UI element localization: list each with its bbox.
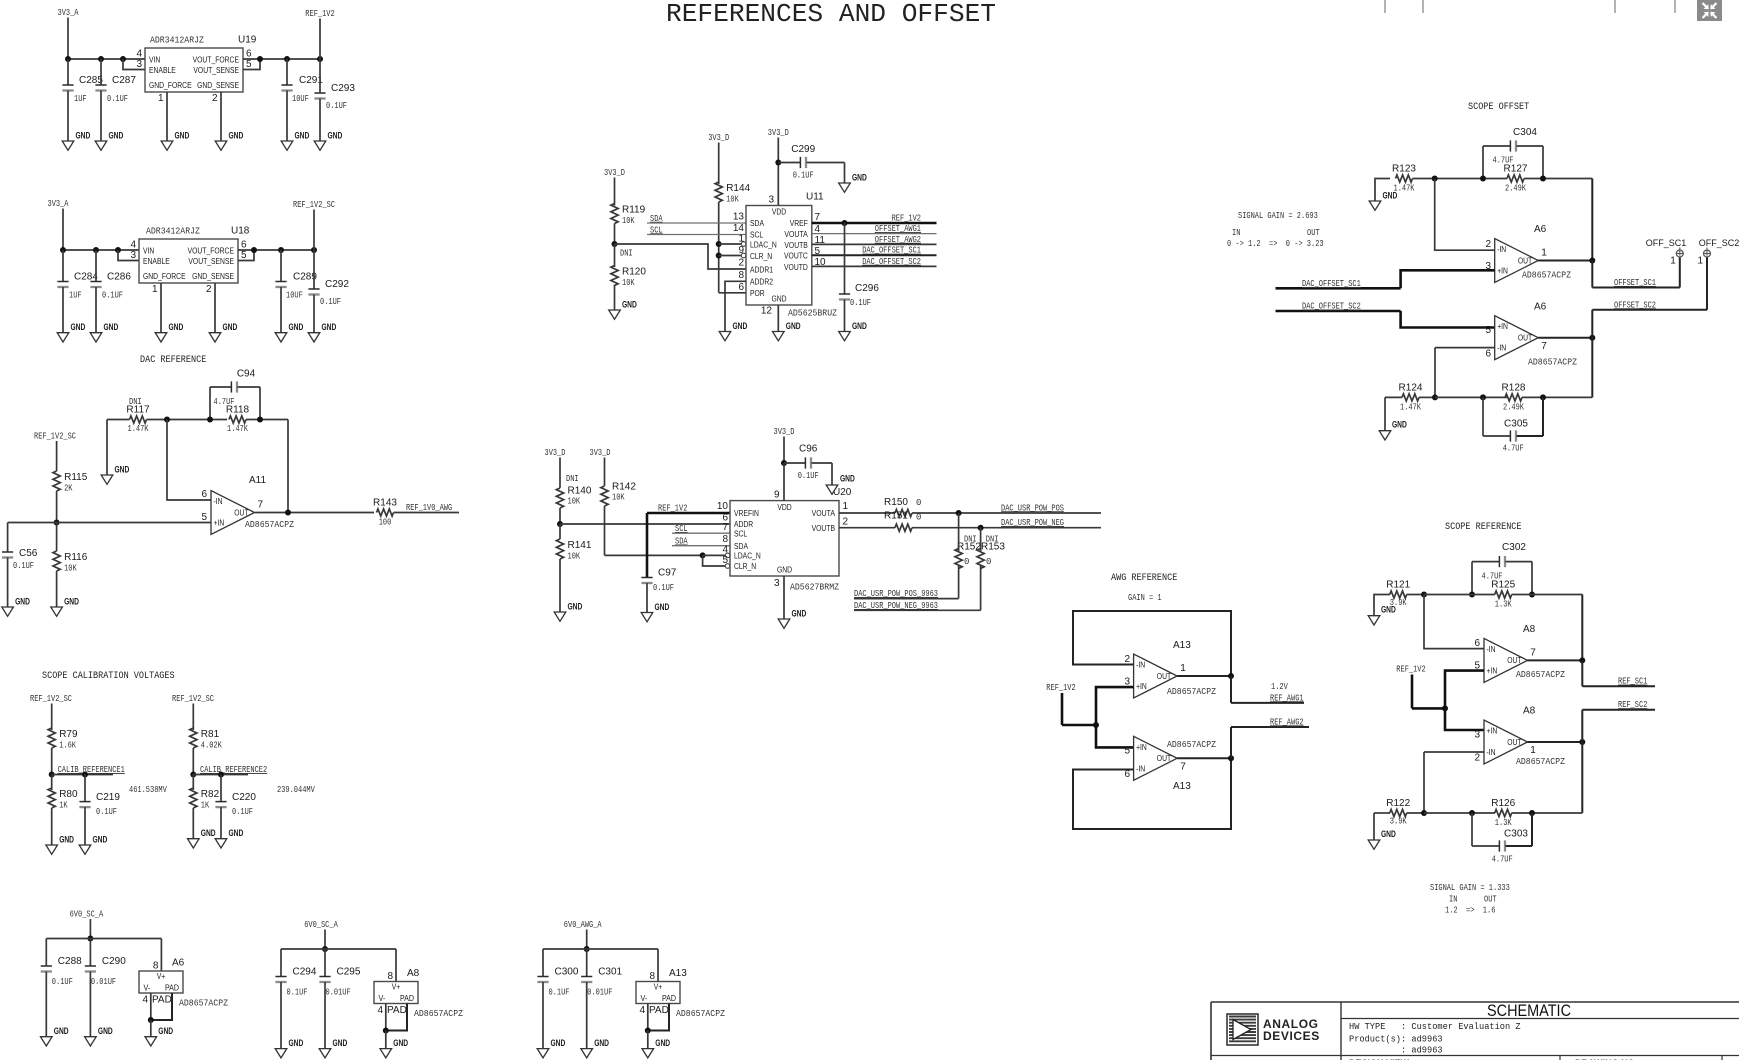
net REF_1V2 output — [812, 222, 937, 225]
svg-text:OFF_SC1: OFF_SC1 — [1646, 238, 1687, 248]
svg-text:AD8657ACPZ: AD8657ACPZ — [1516, 756, 1565, 767]
svg-text:7: 7 — [1180, 762, 1186, 773]
svg-text:3V3_D: 3V3_D — [708, 133, 729, 143]
svg-text:VDD: VDD — [772, 207, 786, 217]
net DAC_OFFSET_SC1 — [812, 254, 937, 256]
wire gnd_force pin1 — [160, 283, 162, 333]
capacitor C289 — [280, 250, 282, 282]
svg-text:VIN: VIN — [143, 245, 154, 255]
resistor R141 — [559, 524, 561, 539]
svg-text:R81: R81 — [201, 729, 220, 740]
svg-text:R144: R144 — [726, 183, 750, 194]
svg-text:OFFSET_AWG2: OFFSET_AWG2 — [875, 235, 921, 245]
svg-text:VOUTA: VOUTA — [784, 229, 808, 239]
capacitor C299 — [778, 162, 800, 164]
svg-text:C220: C220 — [232, 792, 256, 803]
net REF_AWG1 — [1230, 676, 1232, 703]
svg-text:ADR3412ARJZ: ADR3412ARJZ — [150, 35, 204, 46]
svg-text:GND: GND — [655, 602, 670, 612]
svg-text:1: 1 — [1670, 256, 1676, 267]
capacitor C293 — [319, 59, 321, 93]
capacitor C295 — [324, 949, 326, 977]
svg-text:GND: GND — [328, 131, 343, 141]
svg-text:DAC_USR_POW_NEG_9963: DAC_USR_POW_NEG_9963 — [854, 601, 938, 611]
svg-text:R127: R127 — [1504, 164, 1528, 175]
svg-text:DAC REFERENCE: DAC REFERENCE — [140, 354, 206, 366]
svg-text:-IN: -IN — [1136, 660, 1145, 670]
page top border ticks — [1384, 0, 1386, 13]
svg-text:REF_1V2_SC: REF_1V2_SC — [293, 200, 335, 210]
svg-text:AD8657ACPZ: AD8657ACPZ — [245, 519, 294, 530]
wire +IN — [8, 522, 211, 524]
ground — [95, 141, 107, 150]
svg-text:7: 7 — [1530, 647, 1536, 658]
svg-text:R141: R141 — [568, 540, 592, 551]
svg-text:1.47K: 1.47K — [128, 424, 149, 434]
svg-text:C292: C292 — [325, 279, 349, 290]
net OFFSET_SC2 — [1592, 309, 1707, 311]
svg-text:9: 9 — [774, 490, 780, 501]
svg-text:GND: GND — [158, 1026, 173, 1036]
node junction — [49, 772, 55, 778]
svg-text:VOUTA: VOUTA — [812, 508, 836, 518]
svg-text:6V0_SC_A: 6V0_SC_A — [304, 920, 338, 930]
svg-text:DAC_USR_POW_POS_9963: DAC_USR_POW_POS_9963 — [854, 589, 938, 599]
svg-text:GND: GND — [786, 321, 801, 331]
net CALIB_REFERENCE2 — [193, 774, 248, 776]
svg-text:3: 3 — [1474, 730, 1480, 741]
capacitor C94 — [230, 381, 232, 392]
svg-text:6V0_AWG_A: 6V0_AWG_A — [564, 920, 602, 930]
voltage reference U18 ADR3412ARJZ — [139, 239, 238, 283]
svg-text:PAD: PAD — [400, 993, 414, 1003]
capacitor C220 — [220, 775, 222, 802]
svg-text:SCHEMATIC: SCHEMATIC — [1487, 1001, 1571, 1020]
capacitor C287 — [100, 59, 102, 85]
svg-text:REF_1V2_SC: REF_1V2_SC — [172, 694, 214, 704]
capacitor C292 — [313, 250, 315, 289]
wire voutb — [839, 527, 895, 529]
wire feedback right — [287, 420, 289, 513]
net DAC_OFFSET_SC2 — [1276, 310, 1401, 313]
svg-text:1: 1 — [1541, 248, 1547, 259]
svg-text:5: 5 — [1485, 325, 1491, 336]
svg-text:SDA: SDA — [734, 541, 748, 551]
svg-text:VOUT_SENSE: VOUT_SENSE — [188, 256, 234, 266]
wire output lower — [1177, 757, 1231, 759]
svg-text:1.3K: 1.3K — [1495, 818, 1512, 828]
resistor R127 — [1507, 175, 1524, 182]
svg-text:REFERENCES AND OFFSET: REFERENCES AND OFFSET — [666, 0, 996, 29]
wire c94 right — [259, 387, 261, 420]
resistor R126 — [1495, 809, 1512, 816]
svg-text:VOUT_FORCE: VOUT_FORCE — [188, 245, 235, 255]
svg-text:+IN: +IN — [1487, 665, 1498, 675]
resistor R119 — [611, 204, 618, 224]
svg-text:0.1UF: 0.1UF — [96, 807, 117, 817]
svg-text:C94: C94 — [237, 369, 256, 380]
svg-text:A13: A13 — [1173, 781, 1191, 792]
ground — [839, 183, 851, 192]
svg-text:GND: GND — [1381, 829, 1396, 839]
svg-text:4: 4 — [377, 1005, 383, 1016]
node junction — [775, 160, 781, 166]
ground — [319, 1049, 331, 1058]
svg-text:PAD: PAD — [662, 993, 676, 1003]
capacitor C300 — [542, 949, 544, 977]
svg-text:C302: C302 — [1502, 542, 1526, 553]
svg-text:1: 1 — [158, 93, 164, 104]
svg-text:5: 5 — [201, 512, 207, 523]
svg-text:C300: C300 — [555, 967, 579, 978]
svg-text:0: 0 — [986, 557, 991, 567]
svg-text:PAD: PAD — [649, 1005, 669, 1016]
svg-text:+IN: +IN — [1136, 681, 1147, 691]
svg-text:6: 6 — [1485, 349, 1491, 360]
svg-text:SCL: SCL — [650, 225, 663, 235]
svg-text:DAC_OFFSET_SC2: DAC_OFFSET_SC2 — [862, 257, 921, 267]
svg-text:REF_1V0_AWG: REF_1V0_AWG — [406, 503, 452, 513]
svg-text:SCL: SCL — [750, 230, 763, 240]
svg-text:REF_1V2: REF_1V2 — [892, 213, 921, 223]
node junction — [87, 936, 93, 942]
svg-text:VOUTB: VOUTB — [784, 240, 808, 250]
svg-text:A11: A11 — [249, 475, 266, 486]
svg-text:0 -> 1.2 => 0 -> 3.23: 0 -> 1.2 => 0 -> 3.23 — [1227, 239, 1324, 249]
ground — [2, 607, 14, 616]
svg-text:LDAC_N: LDAC_N — [734, 551, 761, 561]
svg-text:OUT: OUT — [1518, 255, 1533, 265]
resistor R79 — [48, 728, 55, 748]
svg-text:7: 7 — [722, 522, 728, 533]
svg-text:GND: GND — [169, 322, 184, 332]
svg-text:V+: V+ — [392, 982, 401, 992]
ground — [90, 333, 102, 342]
svg-text:OFFSET_SC2: OFFSET_SC2 — [1614, 300, 1656, 310]
ground — [145, 1037, 157, 1046]
wire to +IN upper — [1445, 671, 1484, 709]
op-amp power pins A13 AD8657ACPZ — [657, 949, 659, 982]
svg-text:OFFSET_SC1: OFFSET_SC1 — [1614, 278, 1656, 288]
resistor R150 — [895, 509, 912, 516]
ground — [62, 141, 74, 150]
svg-text:R79: R79 — [59, 729, 78, 740]
wire feedback right — [1581, 595, 1583, 661]
svg-text:3V3_D: 3V3_D — [774, 427, 795, 437]
svg-text:1: 1 — [1697, 256, 1703, 267]
svg-text:OUT: OUT — [1307, 228, 1320, 238]
resistor R80 — [51, 775, 53, 791]
op-amp A8 AD8657ACPZ upper — [1484, 638, 1528, 682]
ground — [281, 141, 293, 150]
svg-text:GND: GND — [551, 1038, 566, 1048]
wire enable — [118, 250, 139, 261]
svg-text:+IN: +IN — [1136, 742, 1147, 752]
op-amp A13 AD8657ACPZ upper — [1134, 654, 1178, 698]
svg-text:R116: R116 — [64, 552, 88, 563]
svg-text:REF_1V2: REF_1V2 — [305, 9, 334, 19]
svg-text:SDA: SDA — [650, 214, 663, 224]
node junctions right — [257, 56, 263, 62]
svg-text:OFFSET_AWG1: OFFSET_AWG1 — [875, 224, 921, 234]
svg-text:GND: GND — [295, 131, 310, 141]
svg-text:CALIB_REFERENCE2: CALIB_REFERENCE2 — [200, 765, 267, 775]
svg-text:SCOPE OFFSET: SCOPE OFFSET — [1468, 101, 1529, 113]
svg-text:1.2 => 1.6: 1.2 => 1.6 — [1445, 906, 1495, 916]
svg-text:GND_SENSE: GND_SENSE — [192, 271, 234, 281]
title block frame — [1211, 1001, 1739, 1003]
svg-text:5: 5 — [722, 555, 728, 566]
svg-text:-IN: -IN — [1136, 763, 1145, 773]
svg-text:GND: GND — [1392, 420, 1407, 430]
svg-text:0.1UF: 0.1UF — [850, 298, 871, 308]
wire clr_n — [703, 555, 726, 566]
ground — [57, 333, 69, 342]
svg-text:3V3_D: 3V3_D — [590, 448, 611, 458]
svg-text:SCL: SCL — [734, 529, 747, 539]
wire to -IN lower — [1435, 347, 1495, 349]
net REF_AWG2 — [1230, 727, 1232, 758]
svg-text:C56: C56 — [19, 548, 38, 559]
svg-text:V+: V+ — [157, 971, 166, 981]
svg-text:CLR_N: CLR_N — [734, 561, 756, 571]
wire addr — [560, 523, 730, 525]
net DAC_OFFSET_SC1 — [1276, 287, 1401, 290]
svg-text:461.538MV: 461.538MV — [129, 785, 167, 795]
svg-text:GND: GND — [98, 1026, 113, 1036]
svg-text:1UF: 1UF — [69, 291, 82, 301]
ground — [380, 1049, 392, 1058]
svg-text:V+: V+ — [654, 982, 663, 992]
node junction — [1442, 705, 1448, 711]
ground — [554, 612, 566, 621]
wire output lower — [1538, 337, 1592, 339]
svg-text:GND: GND — [201, 828, 216, 838]
svg-text:7: 7 — [815, 212, 821, 223]
svg-text:1K: 1K — [201, 801, 210, 811]
svg-text:GND_FORCE: GND_FORCE — [149, 80, 192, 90]
svg-text:4.7UF: 4.7UF — [1492, 855, 1513, 865]
wire — [912, 527, 1101, 529]
resistor R118 — [229, 416, 246, 423]
wire sda — [647, 222, 746, 224]
svg-text:5: 5 — [241, 250, 247, 261]
ground — [719, 332, 731, 341]
svg-text:A6: A6 — [1534, 224, 1547, 235]
capacitor C304 — [1509, 140, 1511, 151]
svg-text:2: 2 — [1474, 753, 1480, 764]
node junction — [190, 772, 196, 778]
svg-text:GND: GND — [175, 131, 190, 141]
svg-text:0.01UF: 0.01UF — [326, 988, 351, 998]
svg-text:2: 2 — [843, 517, 849, 528]
ground — [85, 1037, 97, 1046]
svg-text:3.9K: 3.9K — [1390, 817, 1407, 827]
svg-text:AD5625BRUZ: AD5625BRUZ — [788, 308, 837, 319]
svg-text:0: 0 — [916, 498, 921, 508]
svg-text:GND: GND — [333, 1038, 348, 1048]
capacitor C291 — [286, 59, 288, 85]
svg-text:DAC_USR_POW_NEG: DAC_USR_POW_NEG — [1001, 518, 1064, 528]
svg-text:GND: GND — [777, 565, 792, 575]
svg-text:8: 8 — [387, 971, 393, 982]
ground — [155, 333, 167, 342]
svg-text:+IN: +IN — [1497, 266, 1508, 276]
svg-text:SDA: SDA — [675, 537, 688, 547]
svg-text:8: 8 — [649, 971, 655, 982]
capacitor C97 — [641, 577, 652, 579]
node junction — [1432, 394, 1438, 400]
svg-text:GND: GND — [64, 597, 79, 607]
ground — [537, 1049, 549, 1058]
svg-text:1.47K: 1.47K — [1394, 184, 1415, 194]
svg-text:R128: R128 — [1502, 383, 1526, 394]
svg-text:10K: 10K — [726, 195, 739, 205]
node junctions — [65, 56, 71, 62]
svg-text:R122: R122 — [1386, 798, 1410, 809]
capacitor C290 — [89, 939, 91, 967]
op-amp A13 AD8657ACPZ lower — [1134, 736, 1178, 780]
svg-text:DAC_USR_POW_POS: DAC_USR_POW_POS — [1001, 503, 1064, 513]
svg-text:+IN: +IN — [1497, 321, 1508, 331]
ground — [826, 485, 838, 494]
svg-text:2: 2 — [1124, 654, 1130, 665]
resistor R151 — [895, 524, 912, 531]
svg-text:C288: C288 — [58, 956, 82, 967]
svg-text:LDAC_N: LDAC_N — [750, 240, 777, 250]
svg-text:U18: U18 — [231, 226, 250, 237]
svg-text:C299: C299 — [791, 144, 815, 155]
wire feedback down — [1581, 710, 1583, 813]
svg-text:AD8657ACPZ: AD8657ACPZ — [1528, 357, 1577, 368]
wire to OFF_SC1 — [1679, 258, 1681, 288]
wire gnd_force pin1 — [166, 92, 168, 141]
svg-text:R82: R82 — [201, 789, 220, 800]
wire gnd_sense pin2 — [214, 283, 216, 333]
ground — [773, 332, 785, 341]
svg-text:2.49K: 2.49K — [1505, 184, 1526, 194]
svg-text:3: 3 — [130, 250, 136, 261]
svg-text:GND: GND — [852, 321, 867, 331]
op-amp power pins A6 AD8657ACPZ — [160, 939, 162, 972]
svg-text:CALIB_REFERENCE1: CALIB_REFERENCE1 — [58, 765, 125, 775]
svg-text:R142: R142 — [612, 482, 636, 493]
svg-text:C293: C293 — [331, 83, 355, 94]
svg-text:VREF: VREF — [790, 218, 808, 228]
svg-text:A6: A6 — [1534, 302, 1547, 313]
svg-text:-IN: -IN — [1487, 747, 1496, 757]
svg-text:AD5627BRMZ: AD5627BRMZ — [790, 582, 839, 593]
svg-text:AD8657ACPZ: AD8657ACPZ — [1522, 270, 1571, 281]
svg-text:OUT: OUT — [1484, 895, 1497, 905]
svg-text:1.47K: 1.47K — [227, 424, 248, 434]
wire vout — [243, 58, 320, 60]
svg-text:GND: GND — [733, 321, 748, 331]
svg-text:10K: 10K — [568, 552, 581, 562]
svg-text:C305: C305 — [1504, 419, 1528, 430]
svg-text:9: 9 — [738, 245, 744, 256]
wire gnd pin12 — [777, 305, 779, 332]
ground — [79, 845, 91, 854]
svg-text:GND: GND — [15, 597, 30, 607]
svg-text:A8: A8 — [1523, 706, 1536, 717]
svg-text:ADR3412ARJZ: ADR3412ARJZ — [146, 226, 200, 237]
wire to -IN — [1424, 595, 1484, 649]
svg-text:POR: POR — [750, 288, 765, 298]
node junctions — [1421, 592, 1427, 598]
wire — [63, 249, 139, 251]
svg-text:C286: C286 — [107, 272, 131, 283]
svg-text:4: 4 — [722, 545, 728, 556]
svg-text:GND: GND — [393, 1038, 408, 1048]
svg-text:CLR_N: CLR_N — [750, 251, 772, 261]
svg-text:10K: 10K — [612, 493, 625, 503]
ground — [642, 1049, 654, 1058]
svg-text:R119: R119 — [622, 205, 646, 216]
svg-text:0: 0 — [964, 557, 969, 567]
svg-text:239.044MV: 239.044MV — [277, 785, 315, 795]
svg-text:VDD: VDD — [777, 502, 791, 512]
dac U20 AD5627BRMZ — [730, 501, 839, 576]
svg-text:GND: GND — [771, 294, 786, 304]
resistor R81 — [190, 728, 197, 748]
ground for R124 — [1384, 397, 1386, 430]
svg-text:2: 2 — [738, 258, 744, 269]
wire ldac_n — [719, 243, 742, 245]
svg-text:SCOPE CALIBRATION VOLTAGES: SCOPE CALIBRATION VOLTAGES — [42, 670, 175, 682]
wire to +IN lower — [1401, 311, 1495, 328]
ground — [188, 839, 200, 848]
wire v- pad — [150, 993, 152, 1020]
svg-text:ENABLE: ENABLE — [149, 65, 176, 75]
node junctions right — [251, 247, 257, 253]
svg-text:10K: 10K — [64, 564, 77, 574]
svg-text:R140: R140 — [568, 486, 592, 497]
node junction — [612, 241, 618, 247]
svg-text:ADDR1: ADDR1 — [750, 264, 773, 274]
svg-text:0.1UF: 0.1UF — [653, 583, 674, 593]
svg-text:U19: U19 — [238, 35, 257, 46]
node junctions — [164, 417, 170, 423]
svg-text:100: 100 — [379, 518, 392, 528]
resistor R142 — [601, 486, 608, 506]
svg-text:1: 1 — [152, 284, 158, 295]
svg-text:GND_FORCE: GND_FORCE — [143, 271, 186, 281]
wire — [68, 58, 145, 60]
svg-text:8: 8 — [153, 961, 159, 972]
node junction — [54, 520, 60, 526]
wire feedback down — [1591, 310, 1593, 398]
node junction — [700, 552, 706, 558]
wire to +IN upper — [1096, 687, 1134, 725]
svg-text:1.47K: 1.47K — [1400, 403, 1421, 413]
svg-text:REF_AWG1: REF_AWG1 — [1270, 693, 1304, 703]
svg-text:1: 1 — [738, 234, 744, 245]
op-amp A8 AD8657ACPZ lower — [1484, 720, 1528, 764]
svg-text:10: 10 — [717, 501, 729, 512]
svg-text:GND: GND — [655, 1038, 670, 1048]
ground — [581, 1049, 593, 1058]
svg-text:GND: GND — [93, 835, 108, 845]
svg-text:VIN: VIN — [149, 54, 160, 64]
svg-text:: ad9963: : ad9963 — [1349, 1045, 1443, 1056]
svg-text:GND: GND — [852, 173, 867, 183]
svg-text:C287: C287 — [112, 75, 136, 86]
svg-text:4: 4 — [136, 49, 142, 60]
svg-text:C295: C295 — [337, 967, 361, 978]
svg-text:ADDR2: ADDR2 — [750, 276, 773, 286]
ground for R117 — [106, 420, 108, 476]
